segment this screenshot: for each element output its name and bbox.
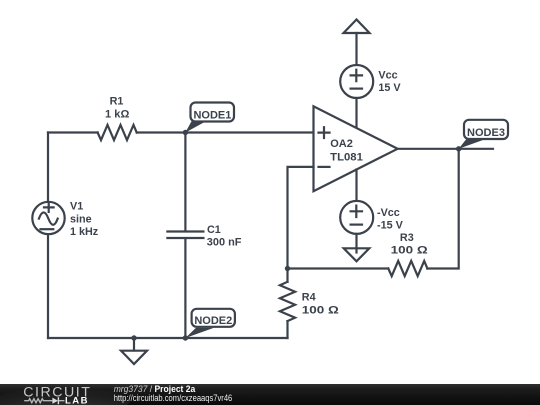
- node NODE1 label: [185, 103, 234, 133]
- svg-text:V1: V1: [70, 201, 83, 213]
- ground bottom: [121, 338, 147, 364]
- svg-text:LAB: LAB: [65, 395, 89, 405]
- resistor R4: [280, 269, 339, 339]
- wire op-amp to -Vcc source: [355, 170, 357, 202]
- svg-text:http://circuitlab.com/cxzeaaqs: http://circuitlab.com/cxzeaaqs7vr46: [114, 392, 233, 403]
- svg-text:300 nF: 300 nF: [207, 237, 242, 249]
- svg-text:sine: sine: [70, 213, 92, 225]
- junction feedback dot: [285, 266, 290, 271]
- svg-text:OA2: OA2: [330, 138, 353, 150]
- svg-text:NODE1: NODE1: [193, 109, 231, 121]
- resistor R1: [98, 96, 137, 140]
- svg-text:100 Ω: 100 Ω: [302, 304, 339, 316]
- junction NODE2 dot: [183, 335, 188, 340]
- CircuitLab logo resistor-diode squiggle: [24, 397, 64, 404]
- svg-text:15 V: 15 V: [378, 82, 401, 94]
- node NODE2 label: [185, 309, 235, 338]
- op-amp OA2: [314, 106, 398, 191]
- svg-text:NODE2: NODE2: [194, 315, 232, 327]
- wire Vcc source to op-amp: [355, 98, 357, 128]
- svg-text:R4: R4: [302, 292, 316, 304]
- svg-text:-Vcc: -Vcc: [377, 207, 400, 219]
- junction NODE1 dot: [183, 130, 188, 135]
- junction ground dot: [131, 335, 136, 340]
- svg-text:1 kHz: 1 kHz: [70, 226, 99, 238]
- wire feedback node to R3: [288, 267, 389, 269]
- voltage source -Vcc -15V: [340, 201, 403, 234]
- wire bottom: [48, 337, 288, 339]
- svg-text:100 Ω: 100 Ω: [391, 245, 428, 257]
- capacitor C1: [167, 224, 241, 249]
- wire left vertical lower (V1 bottom lead): [47, 234, 49, 338]
- wire top from V1 to R1: [48, 131, 98, 133]
- wire C1 down to NODE2: [184, 239, 186, 339]
- wire op-amp inverting input to feedback node: [288, 167, 314, 269]
- junction NODE3 dot: [456, 146, 461, 151]
- svg-text:R3: R3: [400, 232, 414, 244]
- svg-text:TL081: TL081: [330, 151, 363, 163]
- wire R3 to NODE3 branch: [427, 149, 458, 269]
- wire NODE1 down to C1: [184, 133, 186, 232]
- svg-text:-15 V: -15 V: [377, 220, 404, 232]
- wire left vertical upper (V1 top lead): [47, 133, 49, 202]
- svg-text:Vcc: Vcc: [378, 69, 397, 81]
- wire -Vcc source to ground: [355, 234, 357, 253]
- resistor R3: [388, 232, 428, 276]
- svg-text:NODE3: NODE3: [467, 127, 505, 139]
- node NODE3 label: [459, 120, 508, 149]
- wire Vcc arrow to Vcc source: [355, 33, 357, 65]
- voltage source Vcc 15V: [340, 65, 401, 98]
- wire op-amp output: [398, 148, 493, 150]
- Vcc arrow symbol: [344, 20, 370, 34]
- svg-text:1 kΩ: 1 kΩ: [105, 108, 130, 120]
- wire from R1 to op-amp non-inverting input: [137, 131, 314, 133]
- svg-text:C1: C1: [207, 224, 221, 236]
- voltage source V1: [32, 201, 99, 239]
- footer credit line 1: [114, 384, 233, 404]
- svg-text:R1: R1: [110, 96, 124, 108]
- ground under -Vcc: [344, 248, 370, 261]
- footer bar: [0, 384, 540, 405]
